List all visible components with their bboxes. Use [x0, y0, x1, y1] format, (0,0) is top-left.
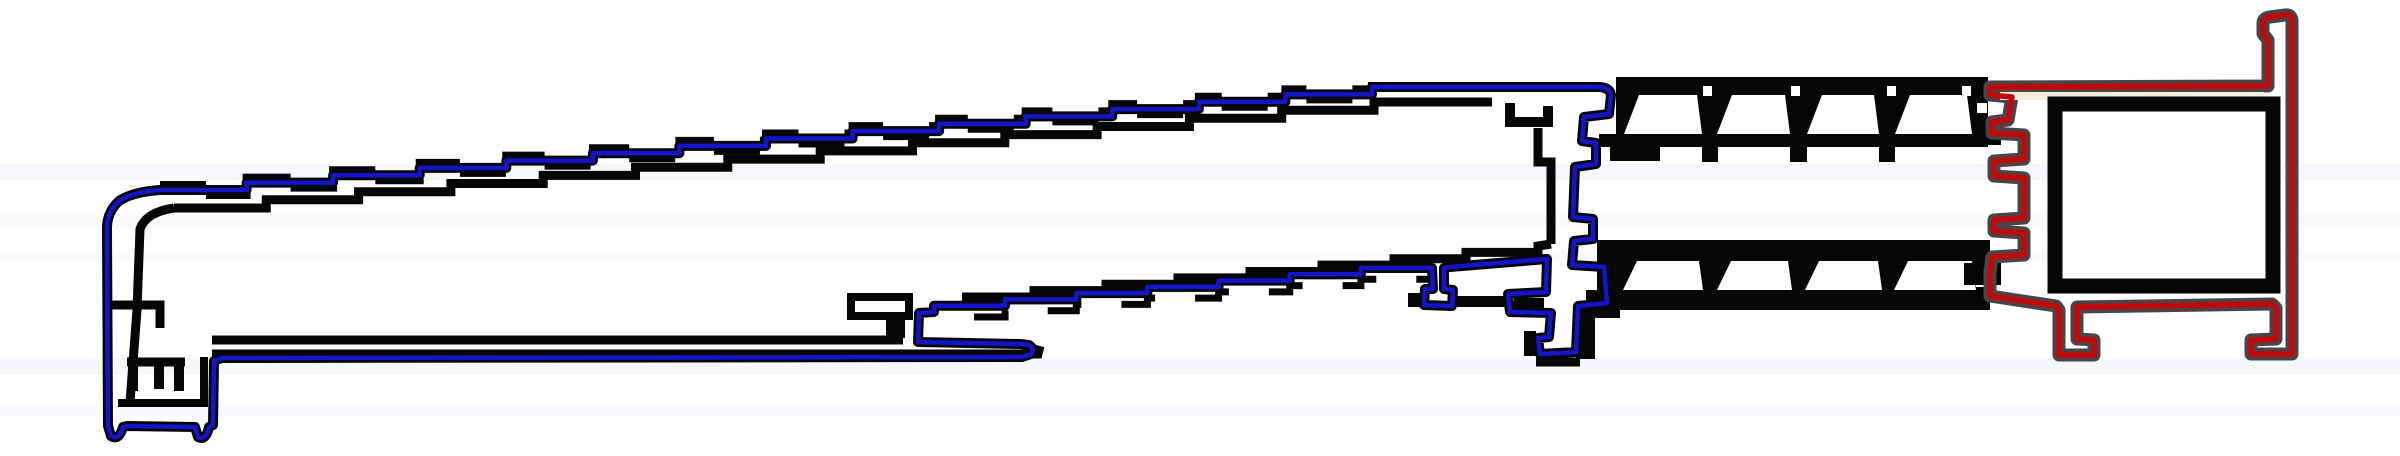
frame inner black box [2055, 104, 2273, 286]
top bar slot 3 [1807, 95, 1879, 134]
black between hook1 and flange [1455, 296, 1507, 307]
bottom bar slot 1 [1623, 261, 1703, 290]
window frame red profile: gray shadow [1990, 15, 2292, 355]
comb tooth 1 [128, 362, 138, 391]
black left of T-foot [1524, 331, 1536, 356]
bottom slope chunk texture lower [934, 273, 1432, 317]
bottom slope chunk texture upper [934, 263, 1432, 307]
sill nose inner wall [130, 208, 174, 402]
faint band 5 [0, 404, 2400, 416]
center profile left wall black [1538, 128, 1551, 244]
top bar notch 1 [1703, 86, 1712, 96]
top slope chunk texture lower [160, 92, 1372, 195]
black right of T-foot stem [1576, 310, 1595, 359]
faint band 3 [0, 251, 2400, 262]
top bar stub 1 [1702, 147, 1718, 162]
faint band 4 [0, 358, 2400, 375]
connector black top right [1981, 124, 2001, 145]
top bar notch 4 [1962, 86, 1971, 96]
nose inner tab [112, 305, 160, 328]
bottom bar slot 4 [1894, 261, 1976, 290]
top bar notch 2 [1791, 86, 1800, 96]
top bar stub 2 [1790, 147, 1807, 162]
black under right flange [1578, 305, 1620, 318]
ledge stub [886, 316, 905, 338]
sill top wall inner black line [174, 102, 1492, 208]
bottom bar slot 2 [1717, 261, 1792, 290]
top slope chunk texture upper [160, 82, 1372, 185]
connector black bottom right [1964, 263, 2001, 285]
sill bottom wall inner black line [962, 244, 1551, 297]
glazing bar top: black body [1599, 77, 1988, 147]
nose inner foot line [118, 357, 204, 403]
top bar white sq right [1977, 103, 1987, 113]
black beside hook1 left [1408, 293, 1424, 307]
comb tooth 3 [174, 362, 184, 391]
ledge box [851, 297, 909, 316]
top bar slot 4 [1895, 95, 1972, 134]
bottom flange black line B [212, 346, 1040, 354]
comb tooth 2 [154, 362, 164, 389]
top bar slot 2 [1717, 95, 1790, 134]
bottom flange black line A [212, 336, 903, 345]
window frame red profile outline [1990, 15, 2292, 355]
cream band under red top [2000, 92, 2264, 100]
gasket stub left mid [1610, 137, 1660, 161]
top bar slot 1 [1624, 95, 1702, 134]
bottom bar slot 3 [1805, 261, 1882, 290]
sill outer contour black companion [107, 87, 1611, 438]
glazing bar bottom: black body [1586, 240, 1990, 310]
center profile top T-notch black [1510, 103, 1548, 122]
faint band 2 [0, 214, 2400, 227]
faint band 1 [0, 164, 2400, 180]
flange interior black [1514, 298, 1544, 308]
sill blue outer contour [107, 87, 1611, 438]
top bar stub 3 [1879, 147, 1895, 162]
bottom bar white sq right [1976, 276, 1985, 287]
nose comb bar [127, 358, 185, 367]
black below T-foot [1536, 358, 1580, 367]
top bar notch 3 [1887, 86, 1896, 96]
